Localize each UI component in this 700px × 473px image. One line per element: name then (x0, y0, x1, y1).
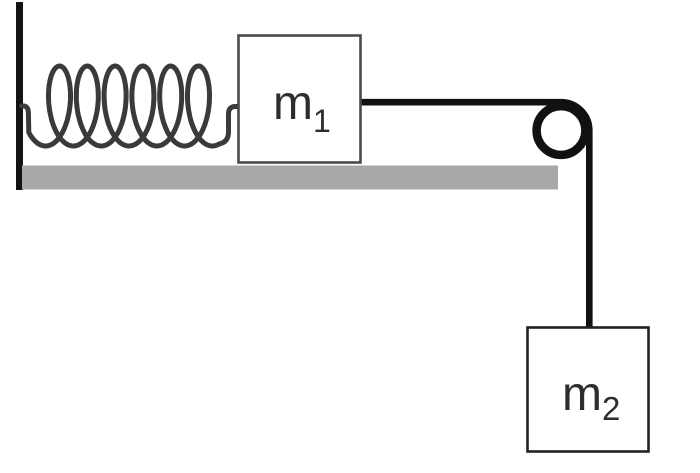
pulley (537, 106, 586, 155)
block m1 (239, 36, 361, 163)
spring (22, 66, 241, 146)
table surface (22, 166, 558, 190)
block m2 (528, 328, 649, 452)
wall (16, 2, 23, 190)
wire rope horizontal and over pulley (360, 102, 589, 328)
